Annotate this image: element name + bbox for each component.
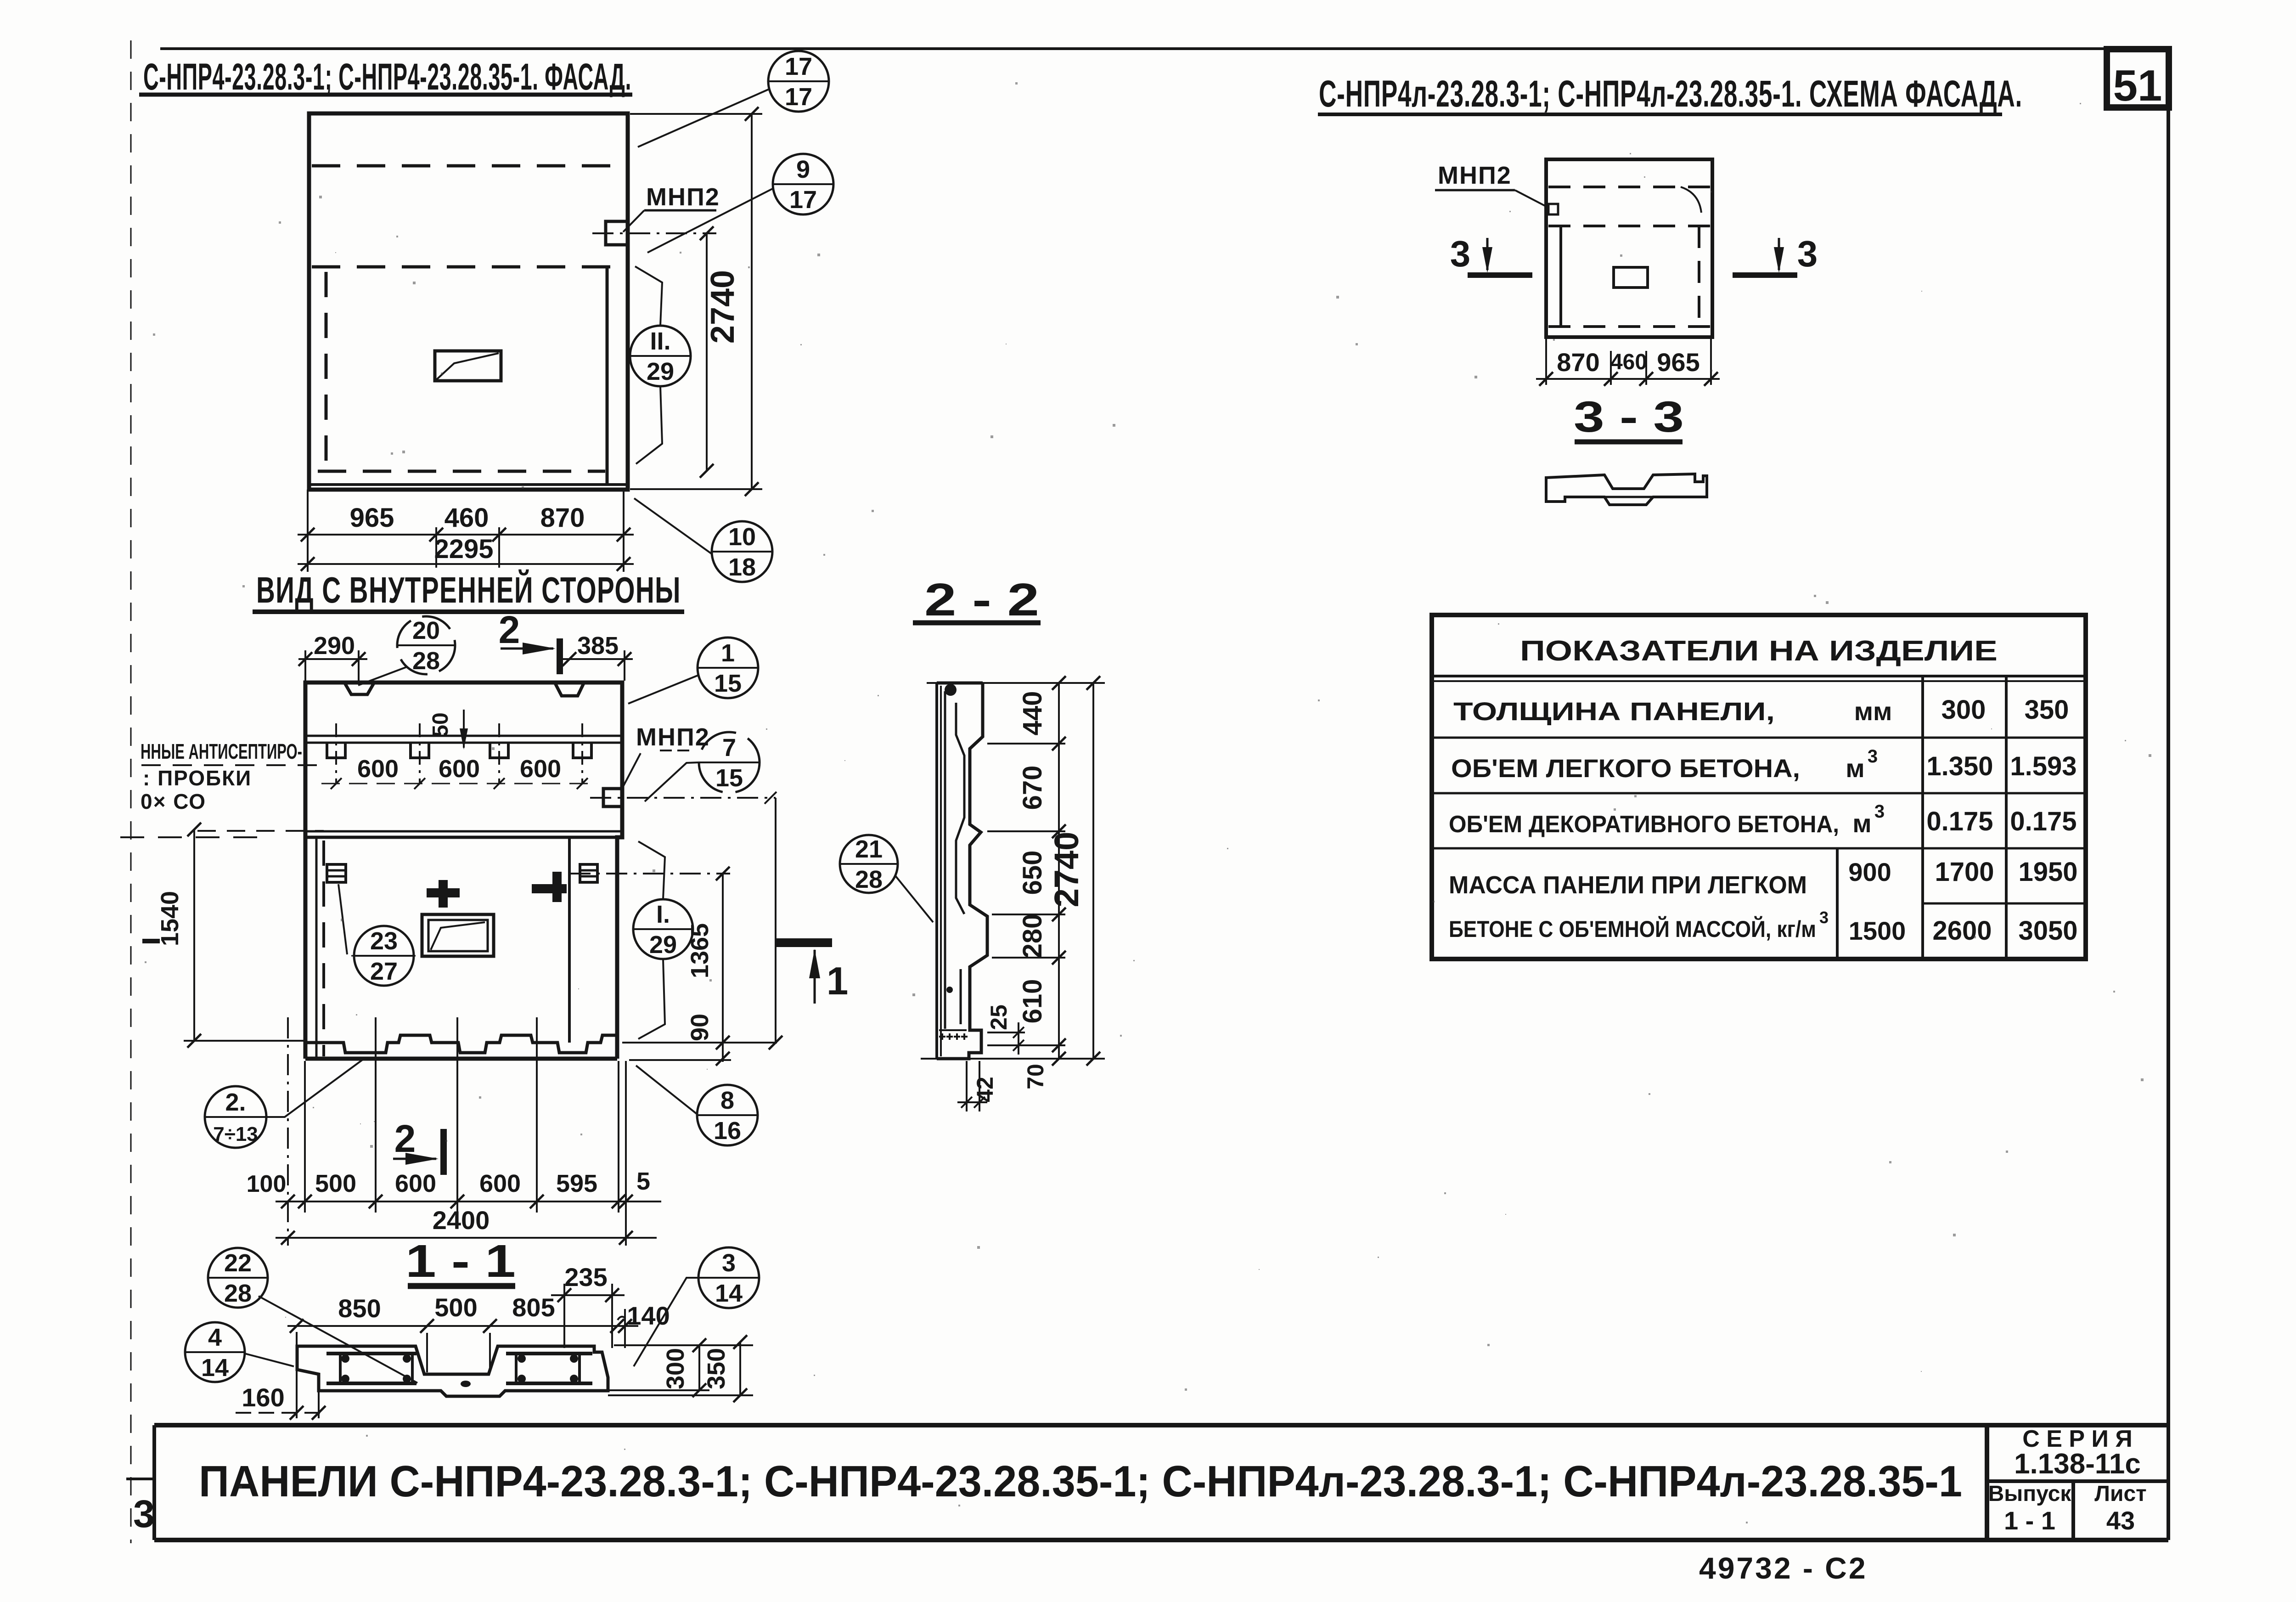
schema МНП2 anchor plate <box>1548 204 1558 214</box>
svg-text:600: 600 <box>395 1170 436 1197</box>
marker circle 3/14 <box>698 1247 759 1308</box>
svg-text:Лист: Лист <box>2094 1482 2146 1506</box>
svg-text:МНП2: МНП2 <box>646 183 720 211</box>
facade dim extension verticals <box>307 490 309 572</box>
svg-text:0× СО: 0× СО <box>141 790 206 813</box>
marker circle 4/14 <box>185 1322 245 1382</box>
leader to 22/28 <box>259 1296 417 1383</box>
svg-text:1 - 1: 1 - 1 <box>405 1235 516 1287</box>
table row line 2 <box>1432 792 2086 795</box>
table column line mass density <box>1836 848 1839 959</box>
svg-text:2600: 2600 <box>1932 916 1992 946</box>
svg-text:965: 965 <box>350 503 394 533</box>
svg-text:1540: 1540 <box>156 891 184 946</box>
inner window opening outer <box>422 914 494 956</box>
svg-text:: ПРОБКИ: : ПРОБКИ <box>143 766 252 790</box>
svg-text:МНП2: МНП2 <box>636 723 710 751</box>
svg-text:21: 21 <box>855 835 883 863</box>
svg-text:ПОКАЗАТЕЛИ НА ИЗДЕЛИЕ: ПОКАЗАТЕЛИ НА ИЗДЕЛИЕ <box>1520 635 1998 667</box>
plug depth dim 50 <box>463 710 465 748</box>
svg-text:600: 600 <box>357 755 399 783</box>
schema inner vertical right dashed <box>1698 226 1700 327</box>
facade height extension lines <box>630 113 762 115</box>
svg-text:7÷13: 7÷13 <box>213 1123 258 1145</box>
inner view inner left edge line <box>315 837 318 1059</box>
svg-text:16: 16 <box>714 1117 741 1145</box>
section 1-1 right rebar cage <box>506 1352 592 1355</box>
left clamp leader to 23/27 <box>338 884 347 954</box>
svg-text:50: 50 <box>428 712 453 737</box>
section 1-1 title underline <box>408 1283 515 1289</box>
svg-text:0.175: 0.175 <box>1926 807 1993 836</box>
dim 42 extensions <box>966 1061 968 1111</box>
svg-text:350: 350 <box>703 1348 730 1389</box>
dim 300 <box>698 1345 700 1390</box>
section 2-2 inner dim line <box>1058 683 1060 1059</box>
svg-text:БЕТОНЕ С ОБ'ЕМНОЙ МАССОЙ, кг/м: БЕТОНЕ С ОБ'ЕМНОЙ МАССОЙ, кг/м <box>1449 916 1816 942</box>
svg-text:2.: 2. <box>225 1089 246 1116</box>
svg-text:300: 300 <box>1941 695 1986 725</box>
svg-text:610: 610 <box>1018 979 1047 1024</box>
svg-text:17: 17 <box>785 83 812 111</box>
svg-text:4: 4 <box>208 1324 222 1351</box>
antiseptic plugs row <box>327 743 345 758</box>
marker circle 2./7:13 <box>205 1086 266 1148</box>
svg-text:ОБ'ЕМ ЛЕГКОГО БЕТОНА,: ОБ'ЕМ ЛЕГКОГО БЕТОНА, <box>1451 754 1800 783</box>
inner window opening inner <box>428 920 488 951</box>
svg-text:28: 28 <box>412 647 440 675</box>
svg-text:1365: 1365 <box>686 923 714 978</box>
page left dashed border <box>130 40 132 1543</box>
svg-text:15: 15 <box>715 764 743 792</box>
leader to 8/16 <box>636 1066 697 1114</box>
svg-text:14: 14 <box>201 1354 229 1382</box>
dim 140 <box>624 1309 626 1348</box>
right clamp anchor <box>580 864 597 882</box>
table row line 1 <box>1432 737 2086 739</box>
dim 160 line <box>236 1412 324 1414</box>
table header double line <box>1432 675 2086 677</box>
extension line 100 dash-dot <box>287 1017 289 1246</box>
curly leader of I./29 lower <box>638 959 665 1039</box>
svg-text:350: 350 <box>2025 695 2069 725</box>
right dim 90 <box>716 1052 730 1066</box>
facade height dim 2740 <box>751 114 753 489</box>
svg-text:3: 3 <box>1819 908 1829 927</box>
inner МНП2 label underline <box>660 750 694 751</box>
inner view dashed left vertical <box>322 840 325 1056</box>
svg-text:10: 10 <box>728 523 756 551</box>
svg-text:385: 385 <box>577 632 619 660</box>
title block bottom border <box>154 1538 2168 1542</box>
svg-text:290: 290 <box>314 632 355 660</box>
facade title underline <box>139 93 632 97</box>
svg-text:22: 22 <box>224 1249 252 1277</box>
inner МНП2 leader <box>621 753 641 791</box>
page top border <box>160 47 2168 50</box>
svg-text:ОБ'ЕМ ДЕКОРАТИВНОГО БЕТОНА,: ОБ'ЕМ ДЕКОРАТИВНОГО БЕТОНА, <box>1449 811 1839 838</box>
inner МНП2 anchor plate <box>603 789 622 807</box>
svg-text:670: 670 <box>1018 766 1047 810</box>
table mass sub row line <box>1923 903 2086 905</box>
section 2-2 extension 280 <box>992 957 1065 959</box>
svg-text:600: 600 <box>439 755 480 783</box>
section 2-2 extension 610 <box>987 1044 1065 1046</box>
left margin stray mark <box>142 939 160 943</box>
section 2-2 rebar vertical 1 <box>944 691 946 1029</box>
svg-text:1: 1 <box>721 639 735 667</box>
svg-text:8: 8 <box>720 1087 734 1114</box>
svg-text:15: 15 <box>714 670 742 697</box>
svg-text:90: 90 <box>686 1014 714 1041</box>
dim 42 line <box>957 1101 987 1103</box>
facade dashed line middle <box>312 265 625 269</box>
facade МНП2 anchor plate <box>606 221 628 245</box>
bottom dim row 1 <box>276 1201 661 1202</box>
facade window opening <box>435 351 501 381</box>
section 2-2 inner contour <box>937 683 987 1059</box>
inner view right rib line <box>568 837 571 1043</box>
svg-text:27: 27 <box>370 958 398 985</box>
title block left edge <box>152 1425 156 1540</box>
table column line values 2 <box>2005 676 2008 959</box>
anchor cross mark center <box>439 880 448 908</box>
section 1-1 dim line 850/500/805 <box>287 1325 638 1327</box>
inner view panel outline <box>305 683 622 1059</box>
schema title underline <box>1318 113 2002 116</box>
schema top-right scribble <box>1681 187 1701 213</box>
dim 350 <box>739 1342 741 1395</box>
dim 160 extensions <box>318 1392 320 1418</box>
svg-text:440: 440 <box>1018 691 1047 736</box>
svg-text:1.593: 1.593 <box>2010 751 2077 781</box>
svg-text:595: 595 <box>556 1170 597 1197</box>
leader to 1/15 <box>628 675 698 704</box>
svg-text:ВИД С ВНУТРЕННЕЙ СТОРОНЫ: ВИД С ВНУТРЕННЕЙ СТОРОНЫ <box>256 569 681 610</box>
marker circle 1/15 <box>698 637 758 698</box>
svg-text:2740: 2740 <box>1047 832 1086 908</box>
svg-text:49732 - С2: 49732 - С2 <box>1699 1551 1868 1585</box>
extension line at 1700 <box>536 1017 538 1213</box>
marker circle 23/27 <box>354 926 414 986</box>
section 3-3 tongue lines <box>1604 496 1653 498</box>
svg-text:9: 9 <box>796 156 810 183</box>
svg-text:I.: I. <box>656 901 670 928</box>
schema МНП2 leader <box>1515 190 1548 208</box>
svg-text:900: 900 <box>1848 857 1891 886</box>
svg-text:5: 5 <box>636 1168 650 1195</box>
section mark 2 top <box>557 638 563 674</box>
inner view middle boundary lower line <box>305 836 622 839</box>
svg-text:1.350: 1.350 <box>1926 751 1993 781</box>
svg-text:70: 70 <box>1023 1064 1048 1089</box>
extension line at 1100 <box>456 1017 458 1213</box>
svg-text:965: 965 <box>1657 348 1699 377</box>
marker circle 7/15 <box>699 732 760 793</box>
svg-text:3: 3 <box>133 1492 155 1535</box>
leader to 7/15 <box>645 762 699 801</box>
section 2-2 title underline <box>913 620 1041 626</box>
table row line 3 <box>1432 847 2086 850</box>
svg-text:1.138-11с: 1.138-11с <box>2014 1448 2141 1480</box>
schema window opening <box>1614 267 1648 288</box>
svg-text:20: 20 <box>412 617 440 644</box>
left margin dashed line at boundary level <box>120 836 257 838</box>
svg-text:460: 460 <box>445 503 489 533</box>
marker circle 17/17 <box>768 51 829 112</box>
svg-text:1: 1 <box>827 959 848 1003</box>
svg-text:17: 17 <box>789 186 817 214</box>
top dim 385 <box>563 658 633 660</box>
title block series horizontal divider <box>1987 1479 2168 1483</box>
facade inner vertical right <box>606 267 609 485</box>
svg-text:18: 18 <box>728 553 756 581</box>
leader to circle 17/17 <box>638 89 769 147</box>
leader to circle 10/18 <box>634 498 712 554</box>
leader to 4/14 <box>245 1354 294 1366</box>
schema dashed line middle <box>1548 225 1710 227</box>
dim 235 line <box>551 1294 625 1296</box>
facade dashed line bottom <box>318 470 605 473</box>
marker circle 8/16 <box>697 1085 758 1145</box>
inner view title underline <box>253 609 684 614</box>
svg-text:МАССА ПАНЕЛИ ПРИ ЛЕГКОМ: МАССА ПАНЕЛИ ПРИ ЛЕГКОМ <box>1449 871 1807 899</box>
extension line at 2295 <box>618 1061 619 1213</box>
svg-text:3050: 3050 <box>2018 916 2077 946</box>
svg-text:2400: 2400 <box>433 1206 490 1235</box>
marker circle II./29 <box>630 326 691 386</box>
svg-text:2295: 2295 <box>434 534 493 564</box>
inner window diagonal mark <box>431 922 485 950</box>
svg-text:29: 29 <box>649 931 677 959</box>
inner view middle boundary upper line <box>305 830 622 833</box>
schema dashed line upper <box>1548 186 1710 188</box>
top dim 290 <box>298 658 367 660</box>
table Показатели на изделие outer frame <box>1432 615 2086 959</box>
section 1-1 profile outline <box>297 1346 608 1396</box>
facade bottom inner line <box>309 483 628 486</box>
facade МНП2 label underline <box>644 209 716 212</box>
svg-text:235: 235 <box>564 1263 607 1292</box>
svg-text:3: 3 <box>722 1249 736 1277</box>
svg-text:1700: 1700 <box>1935 857 1994 887</box>
marker circle 9/17 <box>773 154 833 214</box>
section 2-2 extension 650 <box>992 914 1065 915</box>
facade МНП2 position dim <box>706 233 708 471</box>
section 2-2 overall dim 2740 <box>1092 683 1094 1059</box>
curly leader of II./29 lower <box>636 386 662 464</box>
plugs dim line 600 spacing <box>321 783 592 784</box>
svg-text:300: 300 <box>662 1348 689 1389</box>
inner view top lifting notch left <box>344 683 374 694</box>
right outer dim unlabeled <box>775 798 777 1043</box>
svg-text:0.175: 0.175 <box>2010 807 2077 836</box>
facade МНП2 leader <box>623 210 644 232</box>
svg-text:650: 650 <box>1018 851 1047 895</box>
svg-text:ННЫЕ АНТИСЕПТИРО-: ННЫЕ АНТИСЕПТИРО- <box>141 739 302 763</box>
svg-text:870: 870 <box>1557 348 1599 377</box>
section 2-2 outer face line <box>935 683 938 1059</box>
svg-text:3 - 3: 3 - 3 <box>1574 393 1684 441</box>
marker circle 10/18 <box>712 521 772 582</box>
dim 235 extensions <box>563 1284 565 1348</box>
svg-text:3: 3 <box>1797 233 1818 274</box>
svg-text:м: м <box>1852 809 1871 838</box>
svg-text:42: 42 <box>972 1077 998 1102</box>
leader to circle 9/17 <box>647 188 773 253</box>
leader to 2./7:13 <box>267 1060 363 1117</box>
svg-text:600: 600 <box>479 1170 521 1197</box>
title block vypusk list divider <box>2071 1481 2075 1540</box>
leader to 20/28 <box>358 667 407 685</box>
extension line at 2300 <box>625 1061 627 1246</box>
svg-text:2: 2 <box>394 1117 416 1160</box>
right dim 1365 <box>722 874 724 1043</box>
dim 25 line <box>1018 1022 1019 1055</box>
1540 bottom extension <box>184 1040 304 1042</box>
section 2-2 top edge <box>937 682 983 685</box>
section 2-2 extension bottom <box>921 1058 1105 1060</box>
facade dashed line upper <box>312 164 625 168</box>
svg-text:7: 7 <box>722 734 736 762</box>
leader to 21/28 <box>895 876 933 922</box>
svg-text:С-НПР4-23.28.3-1; С-НПР4-23.28: С-НПР4-23.28.3-1; С-НПР4-23.28.35-1. ФАС… <box>143 56 631 98</box>
anchor cross mark right <box>552 872 562 902</box>
schema inner vertical left <box>1559 226 1562 327</box>
extension line at 500 <box>375 1017 377 1213</box>
title block top border <box>154 1423 2168 1427</box>
svg-text:51: 51 <box>2113 61 2162 110</box>
dims 300 350 extensions <box>614 1344 753 1346</box>
svg-text:500: 500 <box>315 1170 356 1197</box>
section 1-1 left rebar cage <box>326 1352 416 1355</box>
svg-text:14: 14 <box>715 1280 743 1307</box>
inner view band line lower <box>305 742 622 744</box>
section 2-2 rebar vertical 3 <box>960 969 962 1024</box>
section 1-1 center dot <box>461 1381 471 1387</box>
page right border <box>2167 49 2170 1540</box>
marker circle 20/28 <box>397 616 455 674</box>
section 1-1 dim extensions <box>296 1332 298 1418</box>
svg-text:100: 100 <box>247 1171 287 1197</box>
curly leader of I./29 upper <box>638 841 665 899</box>
schema panel outline <box>1546 159 1712 337</box>
left note dashed leader <box>141 764 319 766</box>
svg-text:28: 28 <box>224 1280 252 1307</box>
section 2-2 rebar dot <box>946 987 953 993</box>
svg-text:3: 3 <box>1868 746 1878 767</box>
bottom dim row 2400 <box>276 1237 657 1239</box>
section 3-3 title underline <box>1575 440 1683 445</box>
svg-text:С-НПР4л-23.28.3-1; С-НПР4л-23.: С-НПР4л-23.28.3-1; С-НПР4л-23.28.35-1. С… <box>1319 73 2022 115</box>
svg-text:3: 3 <box>1450 233 1471 274</box>
title block divider before series <box>1985 1425 1989 1540</box>
right clamp dash-dot line <box>569 873 730 874</box>
extension line bottom edge right <box>629 1059 731 1061</box>
svg-text:ТОЛЩИНА ПАНЕЛИ,: ТОЛЩИНА ПАНЕЛИ, <box>1453 697 1775 726</box>
svg-text:м: м <box>1846 754 1864 783</box>
left dim 1540 <box>193 829 195 1041</box>
section 2-2 extension 670 <box>987 830 1065 832</box>
schema dim line 870/460/965 <box>1536 378 1720 380</box>
inner view top lifting notch right <box>555 683 584 696</box>
section mark 1 right <box>775 938 832 947</box>
svg-text:500: 500 <box>434 1293 477 1322</box>
marker circle 22/28 <box>208 1248 268 1308</box>
schema МНП2 label underline <box>1435 189 1515 192</box>
1540 top extension dashed <box>197 830 324 832</box>
svg-text:17: 17 <box>785 53 812 80</box>
svg-text:28: 28 <box>855 866 883 893</box>
schema dashed line bottom <box>1548 325 1710 328</box>
leader to 3/14 <box>634 1278 698 1366</box>
svg-text:Выпуск: Выпуск <box>1988 1482 2072 1506</box>
left clamp anchor <box>327 864 346 882</box>
facade dim line 2295 <box>298 563 634 565</box>
section 2-2 weld marks row <box>939 1036 945 1038</box>
svg-text:2 - 2: 2 - 2 <box>924 574 1039 626</box>
svg-text:43: 43 <box>2106 1506 2135 1535</box>
svg-text:3: 3 <box>1874 801 1885 822</box>
svg-text:460: 460 <box>1610 350 1647 374</box>
svg-text:25: 25 <box>986 1004 1012 1030</box>
svg-text:II.: II. <box>650 327 670 355</box>
svg-text:160: 160 <box>242 1383 284 1412</box>
svg-text:2740: 2740 <box>704 270 741 344</box>
dim 25 extensions <box>987 1032 1025 1033</box>
section 3-3 profile <box>1546 474 1707 505</box>
inner view bottom edge <box>305 1057 617 1061</box>
extension line castellation level right <box>622 1042 777 1044</box>
inner view band line upper <box>305 735 622 737</box>
table column line values 1 <box>1921 676 1924 959</box>
marker circle 21/28 <box>840 835 898 893</box>
section mark 2 bottom <box>440 1129 447 1175</box>
svg-text:2: 2 <box>499 608 520 651</box>
facade dim line 965/460/870 <box>298 534 634 536</box>
curly leader of II./29 upper <box>635 266 662 326</box>
svg-text:1500: 1500 <box>1849 916 1906 945</box>
section 2-2 lifting loop <box>945 684 957 696</box>
svg-text:600: 600 <box>520 755 561 783</box>
section 2-2 rebar vertical 2 <box>956 703 964 914</box>
schema dim extensions <box>1545 339 1547 385</box>
svg-text:1 - 1: 1 - 1 <box>2004 1506 2055 1535</box>
svg-text:мм: мм <box>1854 697 1892 726</box>
svg-text:29: 29 <box>647 358 674 385</box>
svg-text:ПАНЕЛИ С-НПР4-23.28.3-1; С: ПАНЕЛИ С-НПР4-23.28.3-1; С-НПР4-23.28.35… <box>199 1457 1962 1506</box>
facade window diagonal mark <box>437 353 499 379</box>
castellated bottom profile <box>305 1035 617 1053</box>
section 2-2 extension top <box>927 682 1105 684</box>
marker circle I./29 <box>633 899 693 959</box>
scan speckle noise <box>1356 343 1358 345</box>
svg-text:280: 280 <box>1018 914 1047 959</box>
svg-text:870: 870 <box>540 503 585 533</box>
svg-text:805: 805 <box>512 1293 555 1322</box>
section 2-2 extension 440 <box>987 743 1065 745</box>
facade panel outline <box>309 113 628 490</box>
inner МНП2 dash-dot line <box>590 797 776 799</box>
svg-text:23: 23 <box>370 927 398 955</box>
svg-text:1950: 1950 <box>2018 857 2077 887</box>
facade МНП2 center dash-dot line <box>592 232 716 234</box>
sheet number box 51 <box>2107 49 2169 107</box>
svg-text:МНП2: МНП2 <box>1438 162 1512 189</box>
extension line panel left edge <box>304 1061 306 1213</box>
svg-text:850: 850 <box>338 1294 381 1323</box>
facade inner dashed vertical left <box>325 272 328 468</box>
